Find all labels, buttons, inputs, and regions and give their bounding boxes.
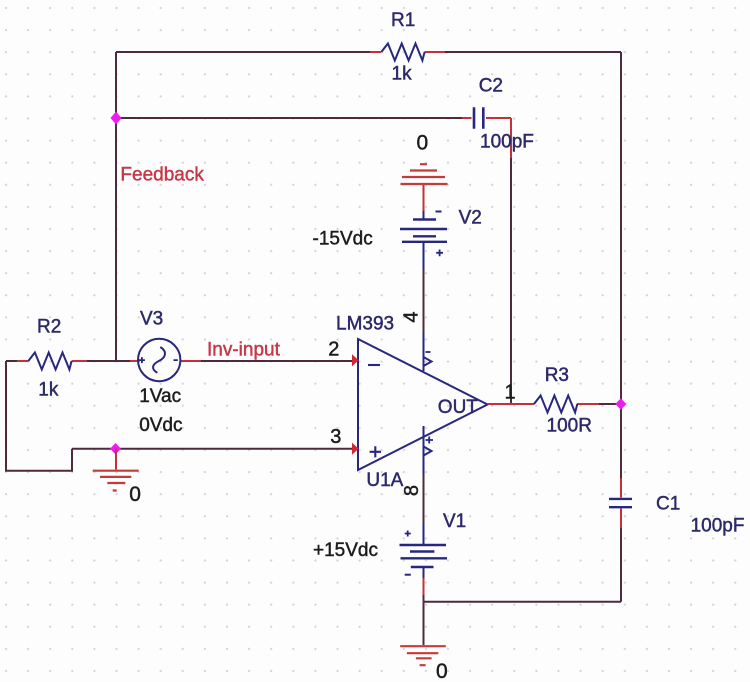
svg-text:C2: C2 [479, 75, 503, 96]
wire output row [599, 403, 621, 405]
svg-text:100pF: 100pF [691, 516, 745, 537]
svg-text:U1A: U1A [366, 470, 403, 491]
source V2 battery [313, 208, 482, 334]
pin 3 arrow [352, 443, 359, 455]
svg-text:100pF: 100pF [480, 132, 534, 153]
pin 8 power pin [401, 426, 433, 496]
svg-text:Inv-input: Inv-input [207, 339, 281, 360]
svg-text:4: 4 [401, 311, 423, 322]
svg-text:8: 8 [401, 485, 423, 496]
wire inv-input row [6, 360, 352, 362]
wire noninverting row [72, 448, 352, 450]
pin 4 power pin [401, 311, 432, 371]
node junction C2 row [111, 112, 122, 125]
svg-text:1k: 1k [392, 64, 413, 85]
source V3 AC [130, 309, 201, 436]
resistor R2 [17, 317, 87, 401]
wire output pin red [488, 403, 535, 405]
svg-text:1: 1 [505, 381, 516, 403]
resistor R3 [534, 365, 599, 437]
pin 2 arrow [352, 354, 359, 366]
wire C2 row [116, 117, 462, 119]
ground 0 left [93, 449, 141, 506]
svg-text:0: 0 [129, 483, 141, 506]
svg-text:C1: C1 [656, 493, 680, 514]
svg-text:100R: 100R [547, 416, 592, 437]
svg-text:1Vac: 1Vac [139, 386, 181, 407]
ground 0 above V2 [401, 132, 448, 212]
svg-text:3: 3 [330, 426, 341, 448]
svg-text:LM393: LM393 [336, 314, 394, 335]
svg-text:V1: V1 [443, 511, 466, 532]
wire C2 to output vertical [510, 156, 512, 404]
svg-text:R1: R1 [391, 10, 415, 31]
node junction output [615, 398, 626, 409]
wire left step to ground [6, 361, 72, 471]
svg-text:V2: V2 [459, 208, 482, 229]
capacitor C1 [609, 478, 744, 537]
svg-text:0: 0 [417, 132, 429, 155]
svg-text:0Vdc: 0Vdc [139, 415, 182, 436]
svg-text:0: 0 [436, 660, 448, 682]
wire right vertical [620, 52, 622, 602]
wire bottom row [424, 602, 622, 645]
svg-text:1k: 1k [38, 380, 59, 401]
svg-text:R3: R3 [545, 365, 569, 386]
node junction noninverting ground [110, 443, 121, 454]
op-amp U1A LM393 [336, 314, 488, 492]
source V1 battery [313, 474, 466, 602]
resistor R1 [370, 10, 445, 85]
svg-text:R2: R2 [37, 317, 61, 338]
svg-text:Feedback: Feedback [120, 165, 204, 186]
svg-text:V3: V3 [140, 309, 163, 330]
wire top feedback net [116, 51, 621, 53]
svg-text:2: 2 [328, 338, 339, 360]
capacitor C2 [462, 75, 534, 158]
svg-text:+15Vdc: +15Vdc [313, 540, 378, 561]
ground 0 bottom [400, 646, 447, 682]
svg-text:-15Vdc: -15Vdc [313, 229, 373, 250]
wire feedback vertical [115, 52, 117, 361]
svg-text:OUT: OUT [438, 397, 479, 418]
